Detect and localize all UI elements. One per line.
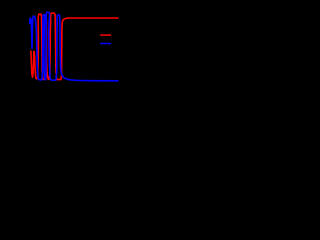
legend blue dash	[100, 43, 111, 45]
background	[0, 0, 140, 98]
blue trace	[30, 12, 118, 81]
red trace	[31, 13, 118, 79]
legend red dash	[100, 34, 111, 36]
